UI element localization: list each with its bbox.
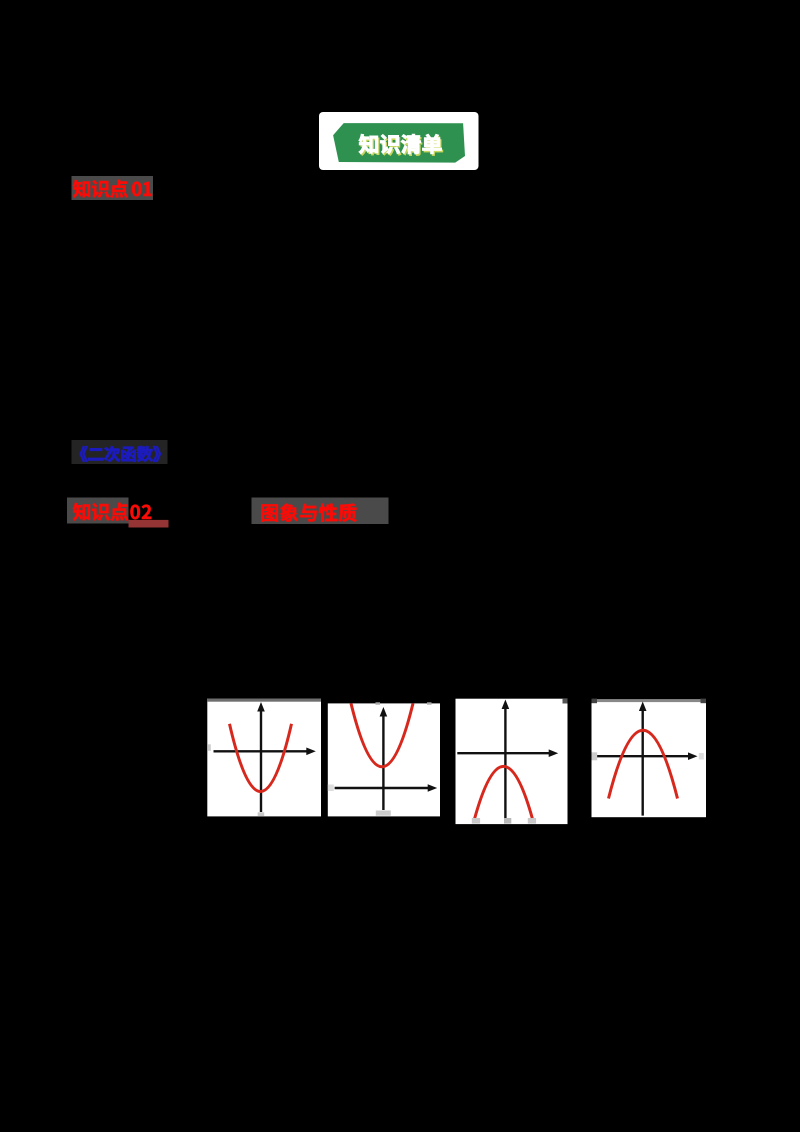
- banner text 知识清单: [359, 134, 378, 154]
- tile 4 left handle: [592, 752, 598, 760]
- tile 1 bottom handle: [258, 812, 265, 816]
- tile 2 bottom handle: [376, 811, 391, 816]
- blue highlight box: [72, 440, 168, 464]
- kp01 highlight box: [72, 176, 154, 200]
- banner white box: [319, 112, 479, 170]
- banner text shadow: [360, 136, 379, 156]
- tile 1 top gray bar: [207, 699, 321, 702]
- tile 4 y-axis: [642, 710, 644, 816]
- tile 2 white tile: [328, 703, 440, 816]
- tile 4 parabola: [609, 730, 678, 798]
- tile 3 parabola: [475, 766, 533, 819]
- tile 4 white tile: [592, 699, 707, 817]
- tile 2 top edge marks: [376, 702, 381, 704]
- tile 2 parabola: [351, 703, 413, 766]
- tile 4 right handle: [699, 753, 704, 760]
- dark red underline bar: [129, 520, 169, 528]
- tile 3 x-axis: [457, 752, 549, 754]
- kp02 text 知识点02: [73, 503, 90, 521]
- blue text 《二次函数》: [80, 446, 88, 462]
- tile 3 top-right dark square: [563, 699, 568, 704]
- tile 3 bottom handles: [472, 818, 480, 824]
- tile 1 x-axis: [214, 750, 308, 752]
- tile 4 x-axis: [595, 755, 689, 757]
- kp01 text 知识点01: [73, 180, 90, 198]
- tile 1 white tile: [207, 699, 321, 817]
- tile 4 top gray bar: [592, 699, 707, 702]
- graph-props highlight box: [252, 498, 389, 525]
- tile 3 white tile: [456, 699, 568, 824]
- tile 2 x-axis: [335, 787, 429, 789]
- text 图象与性质: [261, 504, 278, 521]
- tile 1 parabola: [230, 724, 292, 792]
- tile 4 top corner squares: [592, 699, 598, 704]
- tile 1 y-axis: [260, 710, 262, 812]
- banner green ribbon: [333, 123, 465, 163]
- kp02 highlight box: [67, 498, 129, 524]
- tile 2 left handle: [328, 785, 334, 792]
- tile 1 left edge notch: [207, 744, 211, 751]
- tile 3 y-axis: [504, 708, 506, 818]
- tile 2 y-axis: [382, 715, 384, 810]
